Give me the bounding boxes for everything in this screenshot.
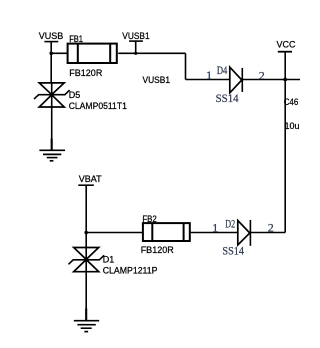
wire VBAT junction down to D1 (85, 233, 87, 248)
wire VUSB junction down to D5 (50, 53, 52, 83)
svg-text:CLAMP0511T1: CLAMP0511T1 (69, 101, 127, 111)
svg-text:FB120R: FB120R (141, 245, 175, 255)
ferrite bead FB2 (143, 223, 190, 241)
junction node VUSB1 (134, 52, 137, 55)
wire VCC stub (284, 52, 286, 80)
wire D5 to ground (51, 107, 53, 150)
svg-text:FB120R: FB120R (69, 68, 103, 78)
wire FB1 to VUSB1 tick (118, 52, 136, 54)
ferrite bead FB1 (68, 44, 117, 63)
svg-text:D4: D4 (217, 63, 227, 77)
wire corner to D4 anode (186, 79, 230, 81)
svg-text:D5: D5 (69, 90, 81, 100)
diode D2 (238, 220, 251, 246)
power port tick VUSB (44, 41, 58, 43)
ground symbol top (39, 139, 65, 161)
wire D2 cathode to rail corner (250, 232, 285, 234)
svg-text:D2: D2 (225, 217, 235, 231)
TVS diode D1 (69, 248, 105, 272)
power port tick VUSB1 (129, 40, 143, 42)
svg-text:SS14: SS14 (222, 243, 244, 257)
power port bar VCC (278, 51, 292, 53)
svg-text:VUSB1: VUSB1 (143, 75, 171, 85)
power port tick VBAT (78, 184, 94, 186)
wire VBAT stub down (85, 185, 87, 232)
wire D4 cathode to VCC rail and right edge (242, 79, 300, 81)
wire FB2 to D2 anode (191, 232, 238, 234)
svg-text:CLAMP1211P: CLAMP1211P (103, 265, 158, 275)
svg-text:D1: D1 (103, 254, 115, 264)
wire VBAT to FB2 (86, 232, 143, 234)
svg-text:1: 1 (206, 68, 212, 82)
junction node VCC (283, 78, 287, 82)
ground symbol bottom (74, 309, 99, 332)
svg-text:VBAT: VBAT (79, 174, 102, 184)
wire VUSB stub (50, 42, 52, 54)
svg-text:FB2: FB2 (142, 214, 156, 224)
wire VUSB1 to corner (136, 52, 186, 54)
svg-text:10uF: 10uF (285, 121, 301, 131)
svg-text:VUSB1: VUSB1 (122, 31, 149, 41)
wire VCC rail vertical (284, 80, 286, 233)
junction node VUSB (49, 52, 53, 56)
svg-text:VUSB: VUSB (39, 31, 64, 41)
svg-text:SS14: SS14 (216, 91, 239, 105)
wire VUSB1 stub (135, 41, 137, 53)
svg-text:VCC: VCC (277, 39, 297, 49)
wire VUSB to FB1 (51, 52, 67, 54)
svg-text:1: 1 (212, 221, 218, 235)
svg-text:C46: C46 (284, 97, 299, 107)
wire D1 to ground (85, 272, 87, 321)
wire corner down (185, 53, 187, 79)
junction node VBAT (84, 231, 88, 235)
TVS diode D5 (34, 83, 70, 107)
diode D4 (230, 67, 243, 93)
svg-text:2: 2 (259, 68, 265, 82)
svg-text:FB1: FB1 (69, 34, 83, 44)
